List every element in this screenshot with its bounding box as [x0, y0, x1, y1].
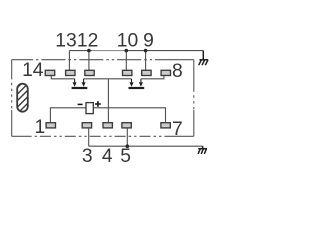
right contact arrow B drop	[140, 79, 142, 83]
wire mid bus to pad 4	[107, 79, 109, 123]
pad 5	[122, 123, 131, 128]
bottom shield bus	[89, 145, 203, 147]
junction dot at pin 12	[87, 49, 91, 53]
case outline left edge	[11, 60, 13, 137]
pin 9 stub	[145, 51, 147, 71]
svg-text:8: 8	[172, 61, 183, 82]
svg-text:1: 1	[35, 117, 46, 138]
pad 7	[161, 123, 170, 128]
svg-text:7: 7	[172, 119, 183, 140]
plus sign	[95, 101, 101, 107]
orientation mark (hatched oval)	[10, 73, 36, 129]
mid bus left-to-right contact	[84, 78, 132, 80]
pad 9	[142, 70, 151, 75]
right contact arrow A head	[129, 82, 133, 87]
ground symbol bottom right	[198, 146, 207, 154]
left contact arrow B head	[82, 82, 86, 87]
pad 1	[46, 123, 55, 128]
pad 3	[82, 123, 91, 128]
svg-text:14: 14	[22, 60, 44, 81]
minus sign	[78, 103, 83, 105]
pin 8 wire to right contact	[141, 76, 164, 79]
case outline top edge	[12, 59, 194, 61]
junction dot at pin 5	[126, 144, 130, 148]
svg-text:3: 3	[82, 146, 93, 167]
right contact arrow B head	[139, 82, 143, 87]
pin 5 stub to bottom bus	[126, 128, 128, 146]
pad 10	[123, 70, 132, 75]
pad 12	[85, 70, 94, 75]
left contact arrow B drop	[83, 79, 85, 83]
coil rectangle	[86, 103, 93, 114]
left contact arrow A head	[73, 82, 77, 87]
ground symbol top right	[199, 51, 209, 66]
svg-text:12: 12	[77, 30, 98, 51]
pad 13	[66, 70, 75, 75]
case outline right edge	[193, 60, 195, 137]
case outline bottom edge	[12, 135, 194, 137]
svg-text:5: 5	[120, 146, 131, 167]
pin 1 wire to coil	[50, 108, 86, 123]
left contact arrow A drop	[74, 79, 76, 83]
pad 14	[45, 70, 54, 75]
pin 3 stub to bottom bus	[88, 128, 90, 146]
coil wire to pin 7	[93, 108, 165, 123]
svg-text:9: 9	[143, 30, 154, 51]
top shield bus	[69, 50, 203, 52]
left contact bar	[72, 87, 88, 89]
svg-text:13: 13	[55, 30, 76, 51]
pin 12 stub	[88, 51, 90, 71]
right contact bar	[129, 87, 145, 89]
svg-text:4: 4	[102, 146, 113, 167]
svg-text:10: 10	[117, 30, 138, 51]
pin 13 stub	[68, 51, 70, 71]
pad 4	[103, 123, 112, 128]
pad 8	[161, 70, 170, 75]
junction dot at pin 10	[125, 49, 129, 53]
junction dot at pin 9	[144, 49, 148, 53]
right contact arrow A drop	[131, 79, 133, 83]
pin 10 stub	[125, 51, 127, 71]
pin 14 wire to left contact	[51, 76, 74, 79]
